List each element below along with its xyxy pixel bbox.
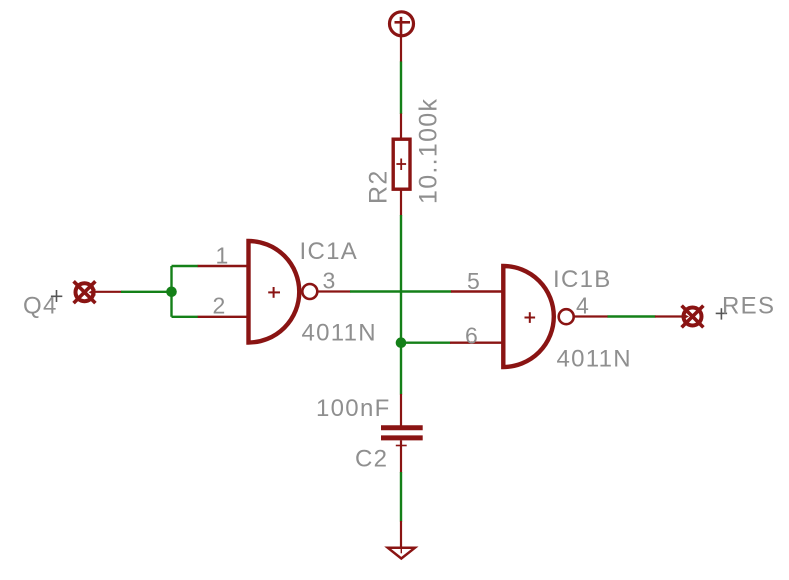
svg-text:4011N: 4011N bbox=[557, 346, 632, 373]
svg-text:6: 6 bbox=[465, 323, 479, 349]
port RES bbox=[682, 306, 704, 328]
node A junction bbox=[166, 287, 177, 298]
capacitor C2 bbox=[381, 394, 423, 473]
wire VCC to R2 bbox=[400, 62, 402, 115]
wire Q4 to node A bbox=[121, 266, 198, 317]
ground bbox=[388, 521, 415, 559]
svg-text:IC1A: IC1A bbox=[300, 238, 359, 265]
port Q4 origin cross bbox=[51, 290, 62, 302]
wire IC1B.4 to RES bbox=[608, 315, 656, 317]
svg-text:Q4: Q4 bbox=[23, 293, 58, 320]
nand gate IC1B bbox=[450, 266, 608, 367]
svg-text:1: 1 bbox=[216, 243, 230, 269]
svg-text:R2: R2 bbox=[365, 169, 393, 204]
resistor R2 bbox=[393, 114, 410, 216]
pin wire port RES bbox=[655, 315, 684, 317]
port Q4 bbox=[74, 281, 96, 303]
svg-text:2: 2 bbox=[213, 293, 227, 319]
node B junction bbox=[396, 337, 407, 348]
svg-text:100nF: 100nF bbox=[316, 395, 391, 422]
pin wire VCC bbox=[400, 35, 402, 62]
svg-text:RES: RES bbox=[722, 293, 775, 320]
wire node B to IC1B.6 bbox=[401, 342, 451, 344]
wire C2 to GND bbox=[400, 472, 402, 522]
port RES origin cross bbox=[716, 308, 727, 319]
svg-text:IC1B: IC1B bbox=[553, 266, 612, 293]
wire IC1A.3 to IC1B.5 bbox=[350, 290, 452, 292]
svg-text:10..100k: 10..100k bbox=[415, 98, 443, 204]
svg-text:4011N: 4011N bbox=[302, 320, 377, 347]
svg-text:4: 4 bbox=[576, 293, 590, 319]
pin wire port Q4 bbox=[94, 291, 122, 293]
svg-text:5: 5 bbox=[467, 268, 481, 294]
wire R2 to node bbox=[400, 215, 402, 395]
power symbol VCC bbox=[390, 12, 414, 38]
nand gate IC1A bbox=[198, 241, 351, 343]
svg-text:3: 3 bbox=[323, 268, 337, 294]
svg-text:C2: C2 bbox=[355, 445, 388, 472]
